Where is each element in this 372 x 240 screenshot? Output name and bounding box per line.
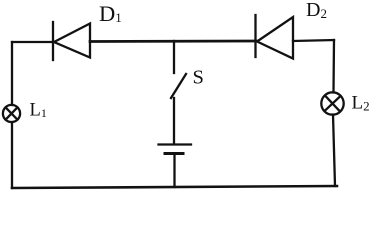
lamp L2 bbox=[321, 92, 343, 114]
diode D1 triangle bbox=[54, 24, 90, 58]
wire left rail lower bbox=[11, 122, 13, 188]
wire right rail lower bbox=[333, 115, 335, 187]
lamp L1 bbox=[3, 105, 20, 122]
wire middle branch lower stub bbox=[173, 154, 175, 187]
wire left rail upper bbox=[11, 42, 13, 105]
wire top-right: D2 anode to right corner bbox=[293, 40, 334, 41]
svg-text:S: S bbox=[193, 67, 204, 89]
svg-text:D1: D1 bbox=[99, 1, 122, 26]
diode D2 triangle bbox=[257, 17, 293, 59]
wire middle branch between switch and battery bbox=[173, 98, 175, 144]
switch S blade bbox=[171, 74, 186, 98]
svg-text:L1: L1 bbox=[30, 101, 47, 121]
diode D2 cathode bar bbox=[254, 15, 256, 57]
wire top-middle: D1 anode to D2 cathode bbox=[90, 40, 256, 43]
wire middle branch upper stub bbox=[173, 41, 175, 73]
wire top-left: left corner to D1 cathode bbox=[12, 41, 53, 43]
svg-text:L2: L2 bbox=[352, 93, 370, 114]
wire bottom bbox=[12, 186, 337, 188]
svg-text:D2: D2 bbox=[306, 0, 327, 21]
battery long plate bbox=[159, 143, 192, 145]
diode D1 cathode bar bbox=[52, 22, 54, 60]
wire right rail upper bbox=[332, 40, 335, 93]
battery short plate bbox=[165, 152, 183, 155]
